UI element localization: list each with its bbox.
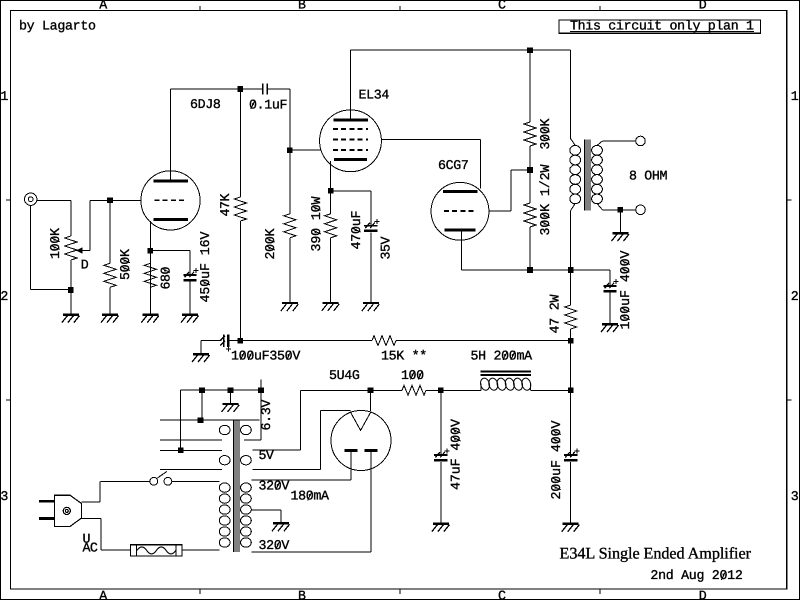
svg-text:1: 1 (0, 89, 8, 104)
svg-text:D: D (81, 257, 89, 272)
svg-text:3: 3 (0, 489, 8, 504)
svg-text:100uF350V: 100uF350V (231, 348, 300, 363)
svg-text:C: C (498, 589, 506, 600)
svg-text:450uF 16V: 450uF 16V (198, 231, 213, 302)
svg-text:1: 1 (791, 89, 799, 104)
svg-text:2nd Aug 2012: 2nd Aug 2012 (650, 568, 742, 583)
svg-text:D: D (699, 0, 707, 12)
svg-text:AC: AC (83, 541, 98, 556)
svg-text:320V: 320V (259, 478, 290, 493)
svg-text:D: D (699, 589, 707, 600)
svg-text:47uF 400V: 47uF 400V (449, 419, 464, 490)
svg-text:6DJ8: 6DJ8 (190, 97, 221, 112)
svg-text:100K: 100K (48, 228, 63, 259)
svg-text:2: 2 (791, 289, 799, 304)
svg-text:320V: 320V (259, 538, 290, 553)
svg-text:47K: 47K (218, 193, 233, 216)
svg-text:47 2W: 47 2W (548, 294, 563, 333)
svg-text:0.1uF: 0.1uF (249, 97, 288, 112)
svg-text:2: 2 (0, 289, 8, 304)
svg-text:C: C (498, 0, 506, 12)
svg-text:15K **: 15K ** (381, 348, 427, 363)
svg-text:200K: 200K (263, 228, 278, 259)
svg-text:5H 200mA: 5H 200mA (471, 348, 533, 363)
svg-text:B: B (298, 589, 306, 600)
svg-text:A: A (99, 589, 107, 600)
svg-text:300K 1/2W: 300K 1/2W (538, 164, 553, 235)
svg-text:6CG7: 6CG7 (438, 158, 469, 173)
svg-text:3: 3 (791, 489, 799, 504)
svg-text:EL34: EL34 (359, 87, 390, 102)
svg-text:35V: 35V (379, 236, 394, 259)
svg-text:5V: 5V (259, 448, 274, 463)
svg-text:8 OHM: 8 OHM (629, 168, 668, 183)
svg-text:6.3V: 6.3V (259, 399, 274, 430)
svg-text:390 10W: 390 10W (309, 196, 324, 251)
svg-text:by Lagarto: by Lagarto (19, 18, 96, 33)
svg-text:5U4G: 5U4G (329, 368, 360, 383)
svg-text:B: B (298, 0, 306, 12)
svg-text:300K: 300K (538, 118, 553, 149)
svg-text:E34L Single Ended Amplifier: E34L Single Ended Amplifier (560, 544, 752, 562)
svg-text:500K: 500K (118, 249, 133, 280)
svg-text:A: A (99, 0, 107, 12)
